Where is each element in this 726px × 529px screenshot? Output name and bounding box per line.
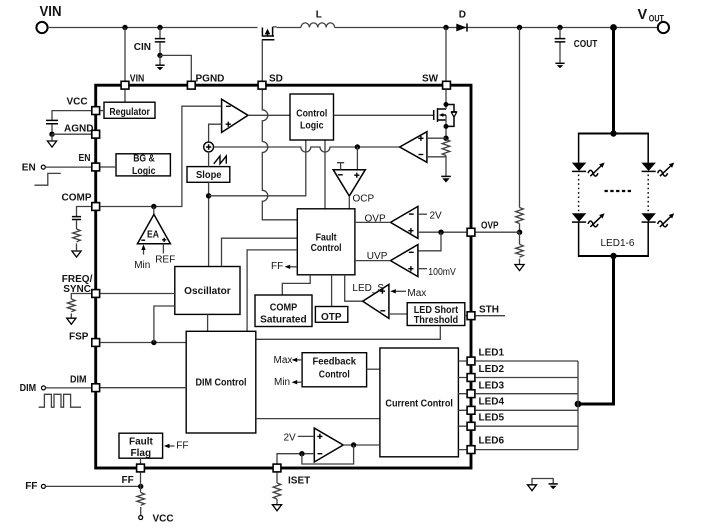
resistor ISET xyxy=(272,473,281,511)
icon sawtooth slope xyxy=(214,156,227,164)
svg-text:Threshold: Threshold xyxy=(414,315,459,326)
box OTP xyxy=(315,307,347,323)
svg-text:VIN: VIN xyxy=(130,74,145,85)
svg-text:SW: SW xyxy=(422,74,439,85)
svg-text:Fault: Fault xyxy=(316,232,338,243)
terminal DIM xyxy=(20,383,92,394)
label 2V reference xyxy=(284,433,315,444)
op-amp current sense xyxy=(400,132,446,163)
svg-text:Regulator: Regulator xyxy=(109,107,150,118)
svg-text:VCC: VCC xyxy=(67,96,88,107)
svg-text:CIN: CIN xyxy=(134,42,151,53)
wire oscillator bottom to DIM Control xyxy=(207,314,209,331)
box Feedback Control xyxy=(302,353,367,387)
wire slope chain to Control Logic left drop xyxy=(209,140,306,196)
wire ISET pin to amp minus xyxy=(277,451,314,464)
terminal FF xyxy=(25,481,141,492)
pin OVP xyxy=(467,221,499,237)
ground under CIN xyxy=(155,55,164,70)
wire LED pin stubs xyxy=(458,361,466,450)
comparator PWM xyxy=(222,99,248,132)
ellipsis more LED strings xyxy=(605,190,634,192)
svg-text:UVP: UVP xyxy=(367,251,388,262)
capacitor COUT xyxy=(555,25,598,69)
wire Feedback to Current Control xyxy=(367,368,380,370)
svg-text:VIN: VIN xyxy=(40,4,62,20)
svg-text:Fault: Fault xyxy=(129,436,154,447)
svg-text:L: L xyxy=(316,10,322,21)
pin PGND xyxy=(187,74,224,90)
svg-text:Max: Max xyxy=(407,288,426,299)
pin ISET xyxy=(273,464,310,486)
pin FF xyxy=(122,464,145,486)
svg-text:EA: EA xyxy=(147,229,159,240)
svg-text:LED2: LED2 xyxy=(479,364,505,375)
svg-text:EN: EN xyxy=(22,162,36,173)
ground tie AGND PGND xyxy=(528,479,558,491)
svg-text:Control: Control xyxy=(319,370,350,381)
svg-text:Slope: Slope xyxy=(196,170,222,181)
label LED1-6 xyxy=(601,238,635,249)
node SW drop xyxy=(443,25,448,81)
comparator OCP xyxy=(333,163,374,209)
svg-text:OVP: OVP xyxy=(481,221,499,232)
box LED Short Threshold xyxy=(407,303,465,326)
wire LED Short box to DIM Control xyxy=(256,326,440,340)
wire COMP to EA and PWM inverting input xyxy=(100,106,221,214)
terminal VOUT xyxy=(638,7,670,33)
pin DIM xyxy=(70,375,100,392)
box Oscillator xyxy=(175,267,240,315)
wire gate drive xyxy=(334,114,434,116)
box Fault Flag xyxy=(119,433,163,459)
pin LED6 xyxy=(467,436,504,454)
comparator LED_S xyxy=(352,283,389,319)
LED D3 xyxy=(641,163,674,177)
wire OVP pin to divider xyxy=(476,231,520,233)
wire VIN pin to Regulator xyxy=(124,90,126,102)
regulator box xyxy=(104,102,155,118)
svg-text:LED4: LED4 xyxy=(479,397,505,408)
pin LED4 xyxy=(467,397,504,415)
box Control Logic xyxy=(290,94,334,140)
resistor divider OVP lower + ground xyxy=(515,230,524,271)
svg-text:OUT: OUT xyxy=(649,13,664,23)
svg-text:Saturated: Saturated xyxy=(260,315,307,326)
wire DIM control to Fault Control xyxy=(247,250,297,331)
LED right string wires xyxy=(647,133,649,258)
icon DIM PWM waveform xyxy=(39,394,82,407)
svg-text:OVP: OVP xyxy=(365,214,386,225)
box Current Control xyxy=(380,348,459,457)
svg-text:2V: 2V xyxy=(284,433,297,444)
svg-text:PGND: PGND xyxy=(196,74,225,85)
pin SW xyxy=(422,74,450,90)
wire thick VOUT to LED string xyxy=(610,24,617,133)
transistor Q1 input disconnect FET xyxy=(262,27,277,40)
arrow FF out of Fault Control xyxy=(271,261,297,272)
svg-text:LED_S: LED_S xyxy=(352,283,384,294)
svg-text:DIM: DIM xyxy=(20,383,36,394)
wire SD drop into Fault Control with hops xyxy=(262,90,297,220)
wire amp output and feedback loop xyxy=(302,442,380,464)
wire Fault Control to OTP xyxy=(331,275,333,307)
wire DIM pin to DIM Control xyxy=(100,387,186,389)
wire Fault Flag to FF pin xyxy=(140,458,142,464)
IC body U1 xyxy=(96,85,471,468)
svg-text:Oscillator: Oscillator xyxy=(184,286,231,297)
ground AGND xyxy=(47,134,56,147)
svg-text:OCP: OCP xyxy=(353,194,375,205)
wire STH stub xyxy=(476,315,505,317)
svg-text:Control: Control xyxy=(311,243,342,254)
svg-text:Feedback: Feedback xyxy=(313,357,357,368)
wire Control Logic to Fault Control drop xyxy=(324,140,326,209)
box DIM Control xyxy=(186,331,256,433)
wire CIN to PGND pin xyxy=(160,55,191,80)
pin FSP xyxy=(69,332,100,347)
node OCP tap xyxy=(355,144,360,169)
LED D1 xyxy=(572,163,605,177)
wire LED Short box to STH pin xyxy=(465,315,467,317)
svg-text:Logic: Logic xyxy=(300,121,324,132)
svg-text:LED5: LED5 xyxy=(479,413,505,424)
pin LED5 xyxy=(467,413,504,431)
ground under Rsense xyxy=(441,176,451,182)
svg-text:FSP: FSP xyxy=(69,332,89,343)
svg-text:LED1: LED1 xyxy=(479,348,505,359)
svg-text:DIM: DIM xyxy=(70,375,87,386)
svg-text:SD: SD xyxy=(269,74,283,85)
svg-text:100mV: 100mV xyxy=(428,267,456,278)
box BG & Logic xyxy=(116,154,170,177)
arrow Min into EA xyxy=(134,244,150,270)
svg-text:COMP: COMP xyxy=(270,303,298,314)
stub REF into EA xyxy=(155,244,175,266)
wire current sense signal to summer with hops xyxy=(214,147,400,152)
box Fault Control xyxy=(297,209,355,275)
resistor FF pullup to VCC xyxy=(137,473,174,525)
pin LED2 xyxy=(467,364,504,381)
wire top rail xyxy=(48,27,658,29)
network COMP compensation xyxy=(72,207,91,258)
svg-text:2V: 2V xyxy=(430,210,443,221)
arrow Max into LED_S xyxy=(390,288,426,299)
pin STH xyxy=(467,305,499,320)
summer node xyxy=(204,142,214,152)
svg-text:LED3: LED3 xyxy=(479,381,505,392)
svg-text:Min: Min xyxy=(134,260,150,271)
wire VCC pin to Regulator xyxy=(100,110,104,112)
box Slope xyxy=(187,167,230,183)
wire thick LED string return xyxy=(575,256,614,407)
wire PWM output to Control Logic xyxy=(248,114,290,116)
svg-text:BG &: BG & xyxy=(133,154,155,165)
svg-text:Max: Max xyxy=(274,355,293,366)
icon EN step waveform xyxy=(35,173,61,185)
wire DIM Control to Current Control xyxy=(256,418,380,420)
svg-text:FF: FF xyxy=(176,441,188,452)
wire summer to slope to oscillator xyxy=(206,152,211,267)
svg-text:OTP: OTP xyxy=(321,312,342,323)
wire Fault Control to LED_S xyxy=(345,275,363,301)
pin VCC xyxy=(67,96,100,114)
LED D4 xyxy=(641,213,674,227)
transistor M1 power MOSFET xyxy=(434,90,457,138)
wire OVP pin net xyxy=(418,230,467,251)
terminal EN xyxy=(22,162,91,173)
wire PWM plus input from summer xyxy=(209,124,222,142)
svg-text:Min: Min xyxy=(274,377,290,388)
pin VIN xyxy=(121,74,144,90)
pin LED3 xyxy=(467,381,504,398)
svg-text:ISET: ISET xyxy=(288,476,310,487)
wire LED bus xyxy=(476,361,578,450)
wire SD gate drop xyxy=(261,40,263,81)
svg-text:COUT: COUT xyxy=(574,39,598,50)
comparator OVP xyxy=(355,206,442,238)
pin COMP xyxy=(62,193,100,211)
svg-text:FF: FF xyxy=(25,481,37,492)
terminal VIN xyxy=(36,4,61,33)
svg-text:D: D xyxy=(459,10,466,21)
pin LED1 xyxy=(467,348,504,365)
svg-text:LED6: LED6 xyxy=(479,436,505,447)
svg-text:AGND: AGND xyxy=(64,124,93,135)
wire Fault Control to COMP Saturated xyxy=(282,275,310,295)
box COMP Saturated xyxy=(255,295,312,327)
svg-text:DIM Control: DIM Control xyxy=(196,378,247,389)
resistor divider OVP upper xyxy=(516,25,524,232)
arrow Max out of Feedback xyxy=(274,355,303,366)
node VIN-pin drop xyxy=(122,25,127,81)
diode D xyxy=(456,10,467,32)
resistor Rsense xyxy=(442,136,450,177)
svg-text:EN: EN xyxy=(79,153,91,164)
svg-text:REF: REF xyxy=(155,255,175,266)
svg-text:Logic: Logic xyxy=(132,166,156,177)
svg-text:FF: FF xyxy=(271,261,283,272)
pin AGND xyxy=(64,124,100,139)
wire FREQ pin to Oscillator xyxy=(100,293,175,295)
resistor FREQ/SYNC xyxy=(67,294,91,325)
LED string block frame xyxy=(579,130,649,259)
op-amp ISET 2V xyxy=(314,428,343,462)
svg-text:V: V xyxy=(638,7,648,23)
LED D2 xyxy=(572,213,605,227)
wire LED_S minus to LED Short Threshold xyxy=(389,313,407,315)
comparator UVP xyxy=(355,245,456,279)
arrow Min out of Feedback xyxy=(274,377,302,388)
svg-text:VCC: VCC xyxy=(153,514,174,525)
arrow FF into Fault Flag xyxy=(164,441,189,452)
svg-text:LED1-6: LED1-6 xyxy=(601,238,635,249)
svg-text:COMP: COMP xyxy=(62,193,92,204)
capacitor CIN xyxy=(134,25,165,58)
wire oscillator top right riser to Fault Control xyxy=(222,238,298,266)
LED left string wires xyxy=(578,133,580,258)
svg-text:Current Control: Current Control xyxy=(385,398,453,409)
wire VCC decoupling xyxy=(46,111,91,137)
svg-text:Control: Control xyxy=(296,108,327,119)
pin SD xyxy=(258,74,283,90)
pin FREQ/SYNC xyxy=(62,274,100,297)
svg-text:FF: FF xyxy=(122,475,134,486)
op-amp EA xyxy=(137,214,170,243)
wire EN pin to BG xyxy=(100,166,116,168)
svg-text:Flag: Flag xyxy=(131,448,152,459)
svg-text:SYNC: SYNC xyxy=(63,284,91,295)
wire FSP to oscillator and DIM control xyxy=(100,306,186,345)
svg-text:STH: STH xyxy=(479,305,499,316)
inductor L xyxy=(301,10,335,28)
pin EN xyxy=(79,153,100,171)
